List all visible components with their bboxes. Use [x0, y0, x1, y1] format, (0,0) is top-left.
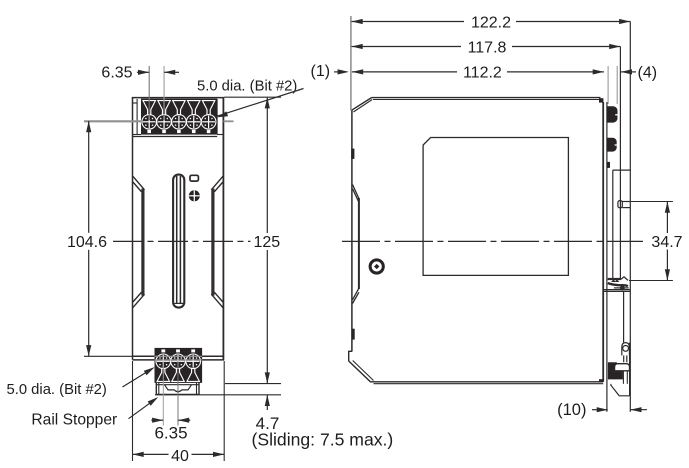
front centerline: [113, 240, 251, 242]
front selector screw: [189, 190, 200, 201]
top terminal block: [141, 99, 217, 135]
rail stopper: [156, 383, 199, 395]
dim 4.7: [155, 395, 281, 433]
svg-text:112.2: 112.2: [463, 65, 502, 82]
top right corner step: [599, 98, 603, 102]
outermost line: [629, 22, 631, 412]
svg-text:40: 40: [171, 448, 189, 465]
rail claw top 1: [607, 106, 618, 122]
LED indicator: [190, 175, 198, 181]
body grooves: [133, 176, 223, 307]
bottom terminal funnels: [157, 365, 199, 382]
dim 112.2: [352, 65, 604, 82]
right gray stubs: [607, 66, 609, 104]
latch detail: [603, 277, 630, 292]
svg-text:6.35: 6.35: [101, 65, 132, 82]
slide clip body: [611, 343, 630, 396]
bottom terminal block: [155, 348, 203, 383]
dim 6.35 top: [101, 65, 179, 120]
center slot: [173, 175, 184, 308]
label (1): [311, 63, 349, 80]
front top flange strips: [133, 99, 224, 135]
label window: [423, 138, 568, 276]
clip long edge: [619, 47, 621, 280]
svg-text:(10): (10): [557, 401, 586, 419]
dim 40: [133, 361, 225, 465]
clip housing: [613, 170, 631, 278]
screw level stub right: [223, 120, 233, 122]
claw stem mark: [607, 162, 610, 168]
svg-text:122.2: 122.2: [471, 14, 511, 31]
label 5.0 dia bottom: [7, 365, 157, 398]
label (4): [621, 65, 657, 82]
label 5.0 dia top: [197, 78, 304, 119]
svg-text:104.6: 104.6: [67, 234, 107, 251]
rail claw top 2: [607, 138, 617, 152]
dim 34.7: [629, 202, 683, 281]
side front screw: [370, 260, 383, 273]
svg-text:34.7: 34.7: [651, 234, 682, 251]
side body bottom edge: [371, 382, 603, 384]
dim 104.6: [67, 121, 141, 356]
svg-text:(4): (4): [638, 65, 658, 82]
bottom terminal screws: [156, 349, 201, 368]
dim 117.8: [352, 39, 621, 56]
top terminal funnels: [143, 101, 215, 118]
dim 125: [224, 97, 281, 383]
svg-text:6.35: 6.35: [154, 423, 187, 442]
svg-text:5.0 dia. (Bit #2): 5.0 dia. (Bit #2): [7, 382, 107, 398]
side body back edge: [602, 102, 604, 382]
front body outline: [132, 98, 224, 360]
dim 122.2: [352, 14, 631, 31]
side body left edge: [349, 110, 374, 383]
slide clip claw: [608, 362, 623, 379]
label rail stopper: [31, 395, 159, 429]
svg-text:(1): (1): [311, 63, 331, 80]
side left ext line: [350, 16, 352, 111]
slide clip hook: [622, 343, 630, 363]
release tab notch: [618, 201, 630, 208]
svg-text:125: 125: [253, 234, 280, 251]
side centerline: [342, 240, 643, 242]
dim 6.35 bottom: [151, 361, 190, 442]
body bottom lines through funnels: [155, 356, 203, 360]
din rail line: [606, 102, 608, 412]
svg-text:Rail Stopper: Rail Stopper: [31, 412, 117, 429]
svg-text:(Sliding: 7.5 max.): (Sliding: 7.5 max.): [252, 429, 394, 449]
svg-text:5.0 dia. (Bit #2): 5.0 dia. (Bit #2): [197, 78, 297, 94]
svg-text:117.8: 117.8: [468, 39, 507, 56]
top terminal screws: [142, 115, 216, 134]
bottom right corner step: [599, 379, 603, 382]
side body top edge: [352, 98, 601, 112]
dim (10): [557, 401, 647, 419]
